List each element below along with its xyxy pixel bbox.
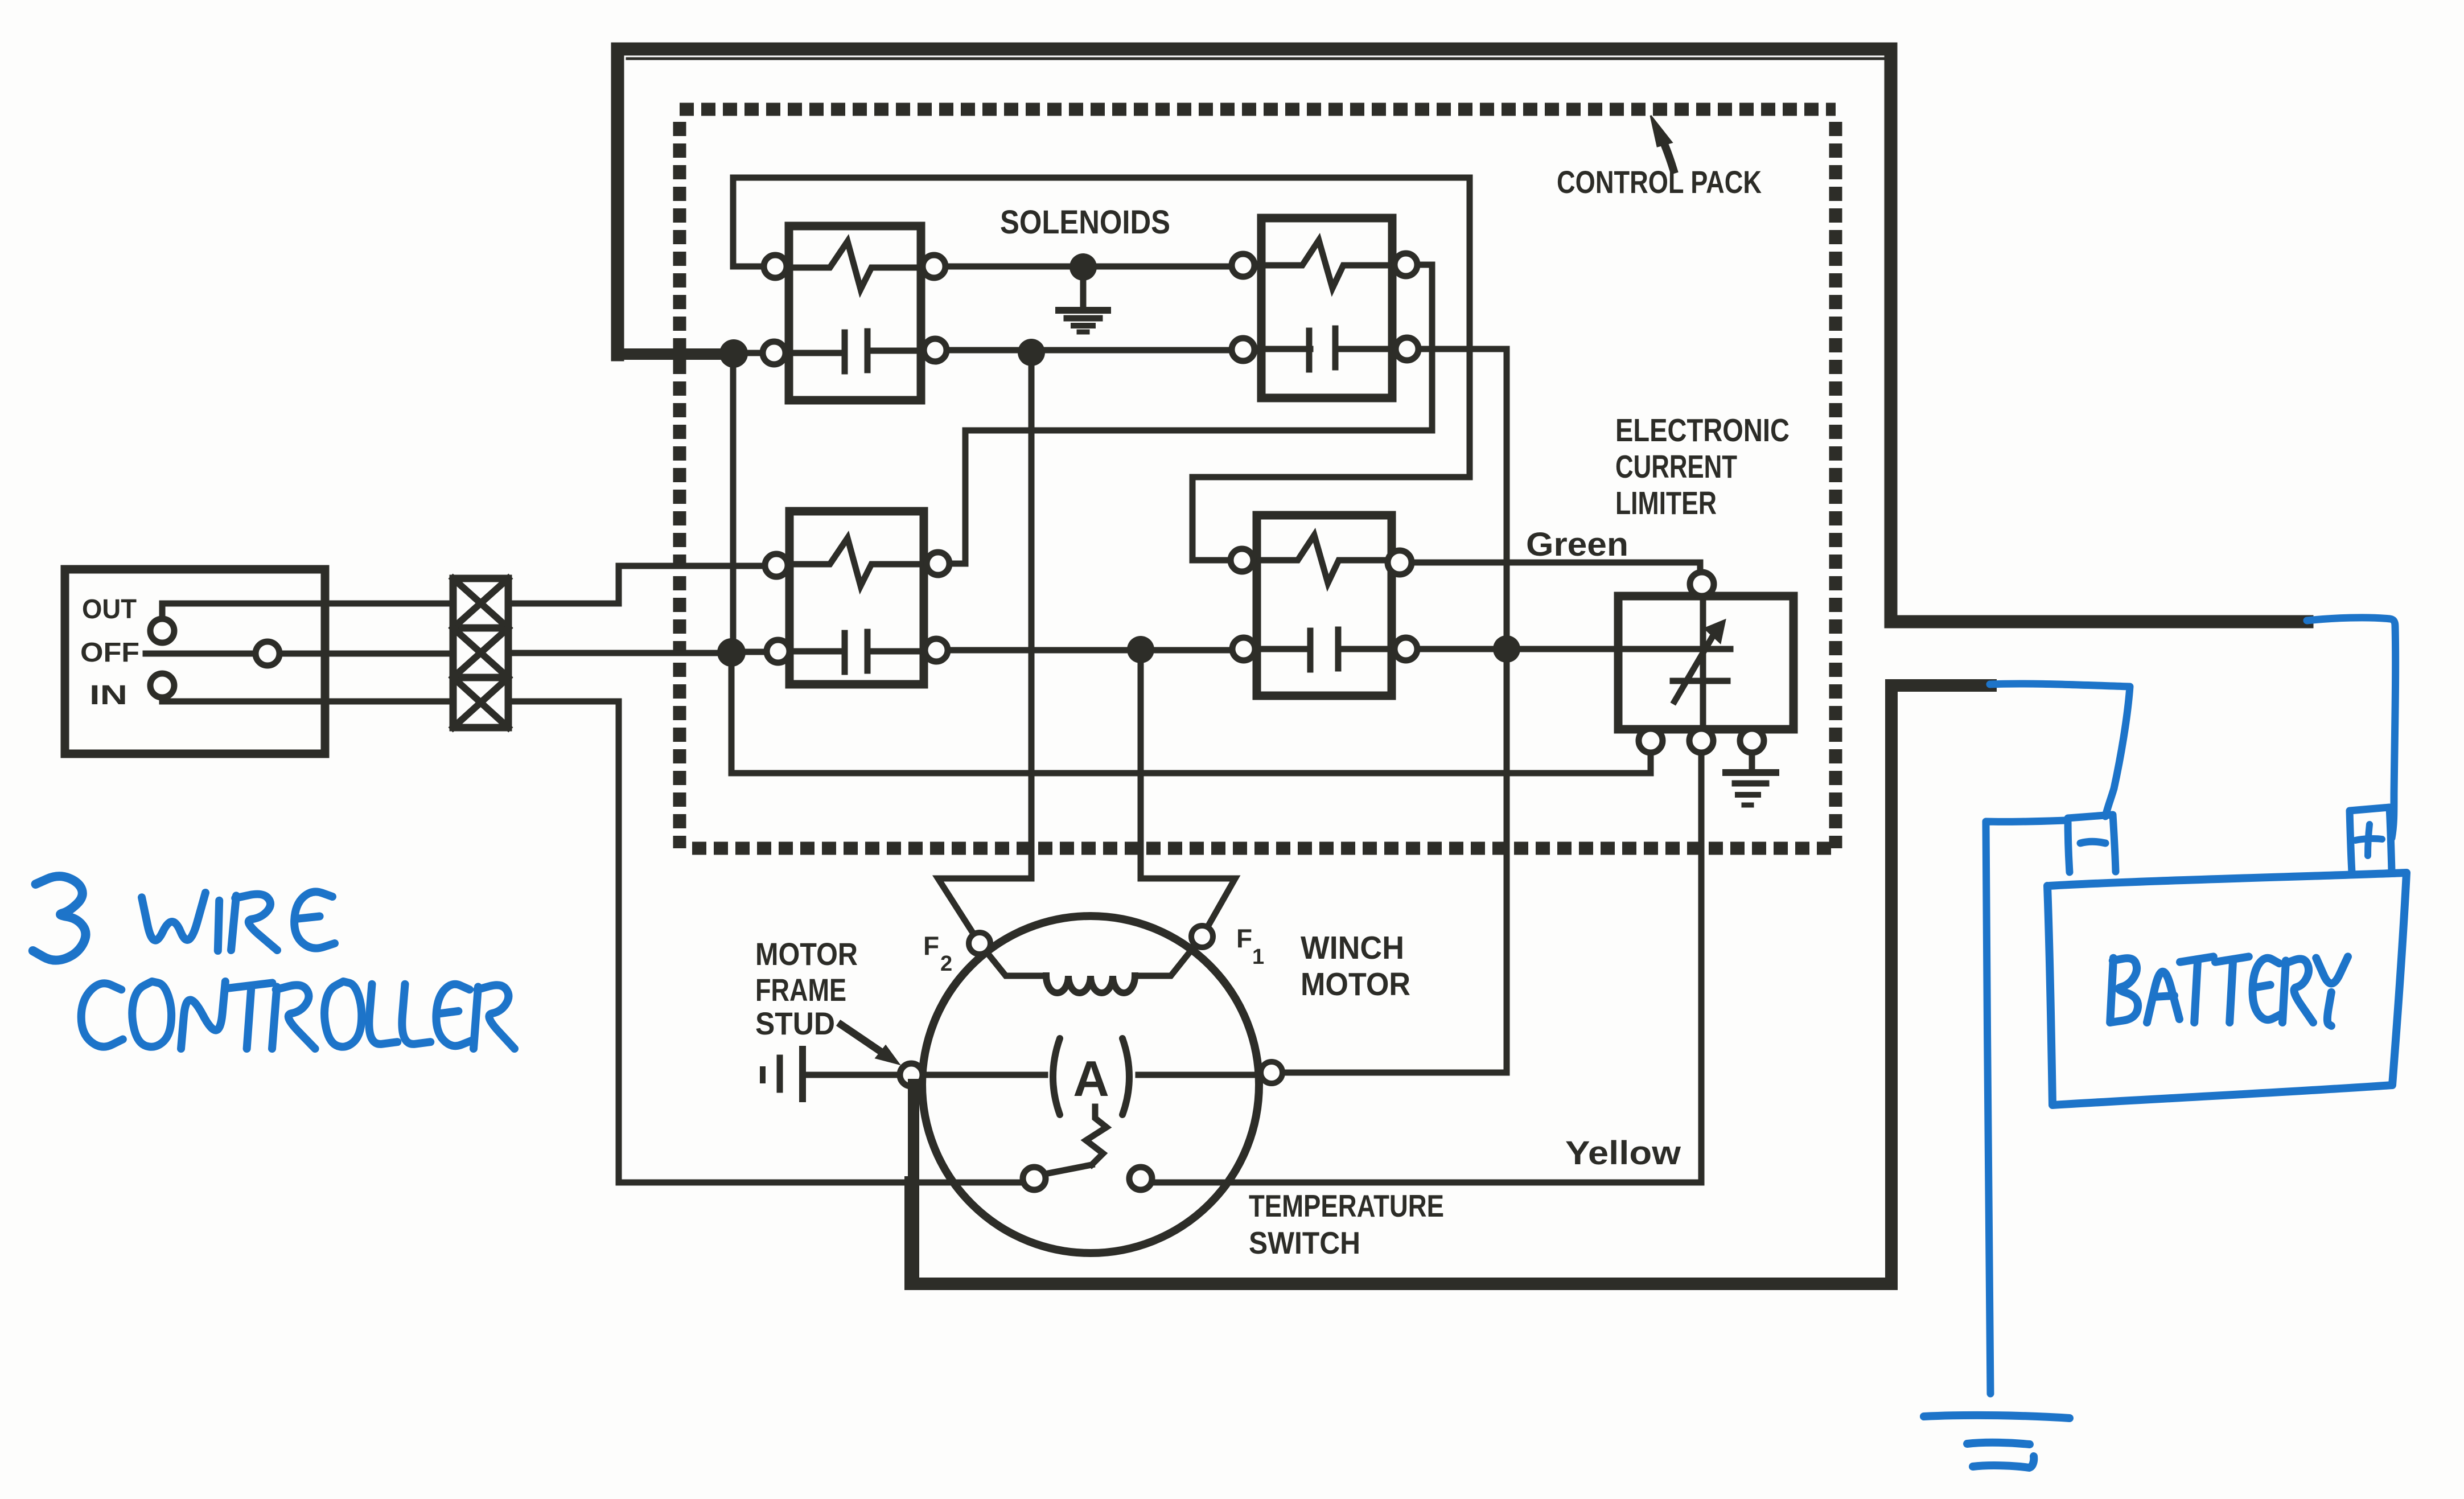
wire IN: connector down and to temperature switch row [508,701,1023,1182]
wire: outer box top/left/right thick power path [618,49,2307,622]
wire OFF arm inside controller [146,651,453,657]
terminal circles K3 [765,554,788,577]
ground: limiter right terminal [1749,753,1755,769]
solenoid K1 box [789,226,921,400]
wire OUT from controller to connector [162,603,453,621]
wire: thick branch from outer box left edge to contact junction dot [618,348,734,360]
svg-text:LIMITER: LIMITER [1615,485,1717,521]
svg-text:A: A [1073,1050,1109,1107]
svg-text:1: 1 [1252,945,1264,969]
junction dot on K4 contact row feeding right funnel [1127,636,1154,663]
capacitor contact symbol K3 [789,648,844,655]
terminal F1 [1191,926,1213,947]
terminal circles K4 [1231,549,1253,572]
svg-text:TEMPERATURE: TEMPERATURE [1249,1188,1444,1223]
svg-text:ELECTRONIC: ELECTRONIC [1615,412,1790,449]
wire: contact row K2 right, corner down to green junction [1392,349,1507,649]
wire: coil row K1 right to ground dot to K2 left [921,264,1261,270]
wire: contact row K1 right to junction dot to K2 left [921,347,1261,354]
svg-text:IN: IN [89,680,127,711]
svg-text:STUD: STUD [755,1005,835,1041]
wire: limiter mid terminal down to temperature switch row (Yellow) [1153,753,1701,1182]
svg-text:MOTOR: MOTOR [755,936,858,972]
coil zigzag K4 [1257,535,1392,583]
coil zigzag K1 [789,241,921,289]
blue wire from minus stub to minus terminal [1990,684,2130,816]
wire: thin inner doubling line under top edge [627,58,1883,60]
solenoid K3 box [789,511,924,684]
solenoid K4 box [1257,515,1392,696]
capacitor contact symbol K4 [1257,646,1309,652]
wire: contact row through solenoid K1 [734,350,844,356]
arrow from STUD label to stud [841,1025,889,1057]
field funnel left [938,878,1031,943]
armature A symbol [1053,1038,1129,1115]
wire: inner loop from solenoid1 coil-left up over to solenoid2 contact row [733,178,1470,350]
plus sign [2355,824,2382,856]
arrow pointing to control pack dashed border [1660,135,1673,170]
terminal circles K1 [764,255,787,278]
svg-text:SWITCH: SWITCH [1249,1225,1360,1260]
blue ground bar 2 [1967,1443,2030,1444]
motor frame stud terminal [900,1063,923,1086]
svg-text:Green: Green [1526,526,1628,563]
svg-text:OFF: OFF [80,638,139,668]
field coil leads [980,943,1046,976]
battery minus terminal box [2068,815,2116,872]
blue wire from plus stub down to plus terminal [2307,618,2396,838]
wire: coil row solenoid1 left lead [733,264,789,270]
handwritten label: BATTERY [2110,958,2138,1022]
wire: K2 coil right down to mid horizontal and left to K3 coil right [951,265,1432,564]
wire IN from controller to connector [162,685,453,701]
terminal F2 [969,933,990,954]
battery plus terminal box [2350,807,2392,872]
control pack dashed border left [673,122,686,848]
wire OUT: connector to solenoid3 coil row [508,566,766,603]
limiter bottom terminals [1639,729,1663,753]
control pack dashed border top [680,103,1836,116]
limiter top terminal [1690,572,1714,596]
temperature switch bimetal squiggle [1086,1107,1106,1165]
svg-text:F: F [923,931,939,960]
field funnel right [1141,878,1235,937]
capacitor contact symbol K2 [1306,331,1313,369]
controller box (3 wire controller) [65,569,325,754]
wire: K3 coil right terminal stub [924,561,965,567]
junction dot contact row left [719,339,748,368]
svg-text:Yellow: Yellow [1565,1135,1681,1172]
svg-text:SOLENOIDS: SOLENOIDS [1000,204,1170,241]
wire: vertical from contact dot down to OFF dot [730,354,737,652]
control pack dashed border right [1829,122,1842,848]
battery box (hand drawn) [2047,873,2407,1105]
svg-text:2: 2 [940,952,952,976]
minus sign [2080,841,2105,843]
coil zigzag K2 [1261,240,1392,288]
wire: OFF row from dot through K3, K4 to current limiter lead [731,649,1730,652]
junction dot green row [1493,635,1520,663]
svg-text:CURRENT: CURRENT [1615,449,1737,485]
coil zigzag K3 [789,538,924,586]
svg-text:FRAME: FRAME [755,972,846,1008]
blue ground bar 3 [1973,1456,2034,1468]
wire OFF: connector to OFF junction [508,650,731,656]
connector block with X cells [453,578,508,728]
wire: green junction down to armature right lead [1282,649,1507,1073]
svg-text:F: F [1236,923,1252,953]
wire: vertical from contact dot down to field funnel left [1029,352,1035,878]
electronic current limiter box [1618,596,1794,729]
svg-text:OUT: OUT [82,594,137,625]
junction dot under K1 (feeds left funnel wire) [1018,339,1045,366]
blue wire from minus terminal to chassis ground [1986,820,2066,1394]
temperature switch blade [1045,1165,1092,1174]
field coil loops [1046,976,1135,993]
control pack dashed border bottom [692,842,1836,855]
svg-text:WINCH: WINCH [1301,930,1404,966]
blue ground bar 1 [1924,1415,2070,1418]
junction dot OFF row [717,638,746,667]
handwritten label: 3 WIRE CONTROLLER [33,876,86,960]
wire: outer box right edge lower segment + bottom edge + left riser [911,685,1990,1284]
armature right terminal [1261,1062,1282,1083]
ground node dot on coil row [1069,253,1097,281]
ground symbol below coil row [1080,281,1087,309]
svg-text:CONTROL PACK: CONTROL PACK [1557,164,1762,200]
capacitor contact symbol K1 [842,332,848,371]
limiter lower lead bar [1673,678,1727,684]
wire: green wire from K4 coil right to limiter top [1392,562,1700,573]
solenoid K2 box [1261,218,1392,398]
winch motor circle [922,916,1259,1253]
limiter diagonal arrow [1675,629,1717,701]
svg-text:MOTOR: MOTOR [1301,966,1410,1003]
limiter internal conductor [1700,596,1706,729]
controller terminal circles [150,619,174,643]
motor frame stud ground symbol [804,1072,900,1078]
wire: drop from K2 contact junction to lower horizontal feeding K4 coil [1192,350,1470,560]
wire: OFF dot down and right to limiter bottom row [731,652,1651,773]
armature leads [923,1072,1261,1078]
terminal circles K2 [1232,254,1254,277]
temperature switch terminals [1023,1167,1046,1190]
wire: stud down to bottom power line (thick) [908,1085,919,1284]
